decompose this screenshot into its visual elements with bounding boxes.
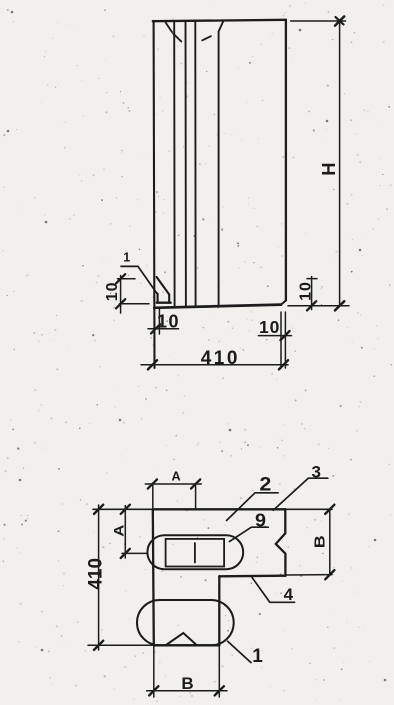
svg-text:4: 4 [284,585,294,604]
A top tick right [191,479,200,488]
410 dim line (elevation) [141,364,288,366]
panel bottom right chamfer [281,301,286,305]
410 plan tick bottom [94,641,103,650]
joint groove line a [173,21,175,307]
A top tick left [148,479,157,488]
H tick bottom [335,301,344,310]
corner chamfer detail bottom [157,302,171,304]
B bottom tick left [149,686,158,695]
A left dim line [124,506,126,559]
svg-text:A: A [172,469,182,484]
corner chamfer detail left side [157,294,159,303]
left horizontal 10 dim: second extension [158,309,160,334]
410 dim line (plan) [98,505,100,650]
plan bottom-left extension for 410 [88,644,154,646]
right horizontal 10 dim: extension b [284,312,286,368]
right vertical 10 tick [307,301,316,310]
svg-text:10: 10 [157,312,180,332]
A top extension right [195,484,197,509]
svg-text:410: 410 [85,558,106,590]
svg-text:1: 1 [123,251,130,265]
left vertical 10 dim line [120,276,122,314]
B right tick bottom [325,570,334,579]
B right tick top [325,505,334,514]
410 plan tick top [94,505,103,514]
B bottom dim line [147,690,227,692]
svg-text:10: 10 [104,282,121,302]
strand dash 2 [173,34,181,42]
leader for label 4 [252,577,295,602]
strand dash 1 [166,23,172,33]
left vertical 10 dim: top extension [118,278,136,280]
svg-text:1: 1 [252,646,263,667]
plan top edge with extensions [93,508,332,510]
svg-text:10: 10 [297,281,314,301]
B bottom tick right [215,686,224,695]
left vertical 10 tick bottom [116,299,125,308]
A top extension left [152,484,154,509]
right vertical 10 dim line [311,277,313,310]
svg-text:B: B [181,674,193,693]
upper void divider [194,543,196,563]
plan left edge extension down [153,645,155,697]
svg-text:H: H [318,162,339,175]
svg-text:B: B [312,535,329,548]
A left tick top [121,505,130,514]
corner chamfer detail right side [168,295,170,303]
right vertical 10 dim: top extension [307,278,317,280]
plan top edge main [153,508,285,510]
left vertical 10 dim: bottom extension [120,303,150,305]
plan left edge [153,509,154,645]
panel right edge [285,20,287,301]
svg-text:10: 10 [259,317,280,337]
H dim bottom extension [288,305,349,307]
B right dim line [329,509,331,574]
leader for label 2 [227,493,279,521]
lower void chevron [166,633,197,645]
joint groove line c [194,21,196,306]
leader for label 1 (elevation) [121,266,157,293]
panel bottom edge [154,305,281,308]
upper void stadium [147,535,243,569]
lower void stadium [137,600,234,645]
plan bottom edge of flange [219,575,285,578]
plan bottom flange extension [285,574,332,576]
right horizontal 10 tick [280,331,289,340]
strand dash 3 [202,36,211,40]
svg-text:9: 9 [255,510,266,531]
panel left edge + extension below [153,21,156,368]
plan bottom edge [154,644,220,646]
H tick top cross mark [336,17,344,25]
left vertical 10 tick top [116,274,125,283]
svg-text:2: 2 [259,474,271,496]
leader for label 3 [273,478,328,510]
left horizontal 10 tick [151,324,160,333]
A top dim line [145,483,201,485]
joint groove line d with top bend [219,22,224,306]
H dim top extension [291,20,346,22]
svg-text:3: 3 [311,463,320,482]
svg-text:410: 410 [201,348,240,369]
leader for label 1 (plan) [228,641,251,662]
left horizontal 10 dim line [148,328,179,330]
right horizontal 10 dim line [259,335,292,337]
plan step vertical edge [218,576,220,645]
joint groove line b [185,21,187,306]
410 tick right [279,360,288,369]
plan right edge with break zigzag [276,509,286,576]
upper void inner rect [166,539,225,567]
A left extension bottom [122,552,148,554]
svg-text:A: A [111,525,127,537]
410 tick left [148,360,157,369]
leader for label 9 [230,527,269,541]
corner chamfer detail diagonal [157,277,170,295]
H dim line [339,21,341,306]
H tick top [335,16,344,25]
A left tick bottom [121,549,130,558]
panel top edge [153,20,286,21]
right horizontal 10 dim: extension a [280,312,282,368]
plan step extension down [218,645,220,697]
